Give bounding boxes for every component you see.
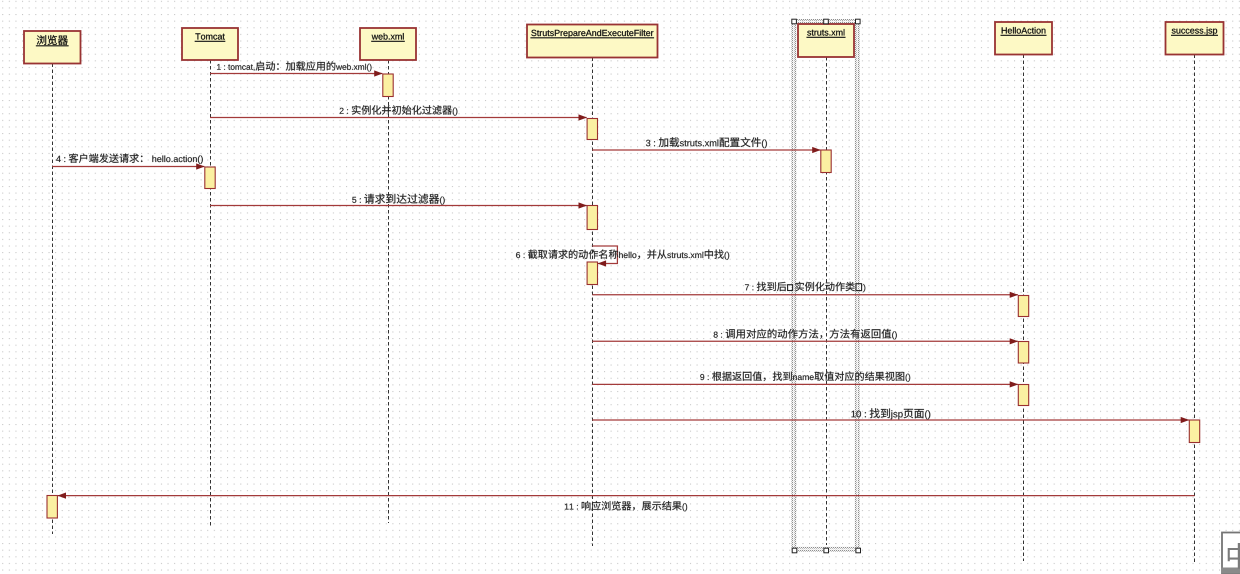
lifeline success.jsp: [1194, 55, 1196, 563]
lifeline 浏览器: [52, 64, 54, 535]
message 7: [592, 282, 1018, 298]
message 3: [592, 137, 821, 153]
activation A9 HelloAction: [1018, 385, 1028, 406]
lifeline Tomcat: [210, 60, 212, 528]
object head web.xml: [360, 28, 416, 60]
message 10: [592, 408, 1189, 423]
object head 浏览器: [24, 31, 81, 64]
lifeline StrutsPrepareAndExecuteFilter: [592, 58, 594, 547]
object head success.jsp: [1166, 22, 1224, 55]
activation A11 browser: [47, 496, 57, 519]
lifeline struts.xml: [826, 57, 828, 545]
object head StrutsPrepareAndExecuteFilter: [527, 25, 658, 58]
activation A5 filter: [587, 206, 597, 230]
activation A10 success.jsp: [1189, 420, 1199, 443]
lifeline HelloAction: [1023, 55, 1025, 562]
message 2: [210, 105, 587, 120]
selection handles: [792, 19, 861, 553]
activation A1 web.xml: [383, 74, 393, 97]
object head struts.xml: [798, 24, 854, 57]
activation A8 HelloAction: [1018, 342, 1028, 364]
message 4: [52, 153, 205, 169]
IME indicator: [1222, 533, 1240, 574]
activation A4 Tomcat: [205, 167, 215, 189]
activation A2 filter: [587, 119, 597, 140]
message 9: [592, 371, 1018, 387]
message 1: [210, 61, 383, 76]
activation A6 filter: [587, 262, 597, 285]
message 6 self-call: [516, 246, 729, 267]
object head HelloAction: [995, 22, 1052, 55]
message 11: [57, 493, 1194, 512]
lifeline web.xml: [388, 60, 390, 523]
activation A7 HelloAction: [1018, 296, 1028, 317]
activation A3 struts.xml: [821, 150, 831, 173]
message 8: [592, 329, 1018, 345]
message 5: [210, 194, 587, 209]
object head Tomcat: [182, 28, 238, 60]
selection band struts.xml lifeline: [792, 19, 860, 552]
